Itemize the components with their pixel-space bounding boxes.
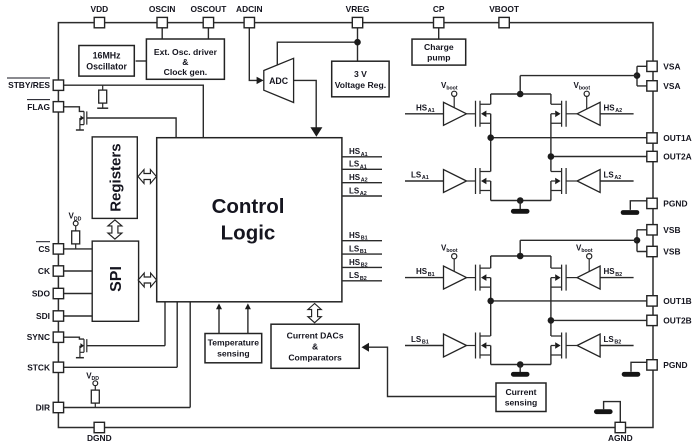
arrowhead into DACs xyxy=(362,343,370,352)
wire CS to SPI xyxy=(64,248,92,250)
wire OUT1A rail xyxy=(491,137,647,139)
pin DIR (left) xyxy=(36,402,64,412)
pin VDD (top) xyxy=(91,4,109,28)
wire STCK to Control Logic xyxy=(64,302,178,368)
svg-text:OSCOUT: OSCOUT xyxy=(190,4,227,14)
wire temp sensing to control (2) xyxy=(247,308,249,334)
ground PGND B xyxy=(622,372,641,377)
pin VSB (right) xyxy=(647,225,681,235)
block SPI xyxy=(92,241,138,321)
node OUT2A xyxy=(548,153,555,160)
node bridge B top xyxy=(517,253,524,260)
svg-text:OUT2B: OUT2B xyxy=(663,315,691,325)
svg-text:3 V: 3 V xyxy=(354,69,367,79)
resistor CS pull-up xyxy=(72,226,80,249)
svg-text:Current: Current xyxy=(505,387,536,397)
wire SDI to SPI xyxy=(64,315,92,317)
svg-text:SYNC: SYNC xyxy=(27,332,50,342)
svg-text:AGND: AGND xyxy=(608,433,633,443)
wire HS B2 input xyxy=(600,277,634,279)
arrowhead temp (1) xyxy=(216,303,222,309)
svg-text:OUT2A: OUT2A xyxy=(663,152,691,162)
wire ADC top to VREG node xyxy=(277,42,357,65)
wire Q1 gate to Control Logic xyxy=(87,118,176,138)
svg-text:PGND: PGND xyxy=(663,198,687,208)
svg-text:&: & xyxy=(182,57,188,67)
wire signal LS B2 xyxy=(342,280,382,282)
driver buffer LS B1 xyxy=(444,334,476,357)
svg-text:Comparators: Comparators xyxy=(288,352,342,362)
wire AGND ground link xyxy=(604,402,621,423)
bus arrow SPI-Control xyxy=(138,273,156,287)
pin SYNC (left) xyxy=(27,332,64,342)
svg-text:16MHz: 16MHz xyxy=(93,50,121,60)
block Control Logic xyxy=(157,138,342,302)
transistor M6 LS B1 xyxy=(476,333,491,359)
pin SDO (left) xyxy=(32,288,64,298)
wire bridge A right bus xyxy=(550,94,552,201)
wire SYNC to Q2 xyxy=(64,337,84,339)
ground PGND A xyxy=(621,210,640,215)
svg-text:STBY/RES: STBY/RES xyxy=(8,80,50,90)
node VREG junction xyxy=(354,39,361,46)
svg-text:VDD: VDD xyxy=(91,4,109,14)
driver buffer HS B2 xyxy=(566,266,600,289)
svg-text:SDO: SDO xyxy=(32,289,51,299)
wire Q2 gate to Control Logic xyxy=(87,302,165,346)
ground bridge A xyxy=(511,209,530,214)
wire signal HS A2 xyxy=(342,182,382,184)
pin VBOOT (top) xyxy=(489,4,520,28)
transistor M5 HS B1 xyxy=(476,265,491,291)
transistor Q1 FLAG open-drain xyxy=(76,111,87,130)
ADC input arrowhead xyxy=(257,77,264,84)
pin OUT1B (right) xyxy=(647,296,692,306)
svg-text:CK: CK xyxy=(38,266,50,276)
Vboot B2 supply terminal xyxy=(576,243,593,271)
resistor STBY pull-down xyxy=(99,85,107,108)
wire HS A2 input xyxy=(600,113,634,115)
wire HS A1 input xyxy=(405,113,444,115)
block 3V voltage regulator xyxy=(332,61,389,97)
svg-text:FLAG: FLAG xyxy=(27,102,50,112)
svg-text:OUT1A: OUT1A xyxy=(663,133,691,143)
block charge pump xyxy=(412,39,466,65)
pin PGND (right) xyxy=(647,360,688,370)
Vboot A1 supply terminal xyxy=(441,81,458,108)
svg-text:VSB: VSB xyxy=(663,247,680,257)
wire LS B2 input xyxy=(600,345,634,347)
wire temp sensing to control (1) xyxy=(218,308,220,334)
pin STCK (left) xyxy=(27,362,63,372)
wire OUT2B rail xyxy=(551,319,647,321)
node bridge A top xyxy=(517,91,524,98)
svg-text:VSB: VSB xyxy=(663,225,680,235)
driver buffer HS A2 xyxy=(566,102,600,125)
svg-text:SPI: SPI xyxy=(108,266,125,292)
block 16MHz oscillator xyxy=(79,46,134,77)
pin CK (left) xyxy=(38,266,64,276)
wire signal HS B1 xyxy=(342,240,382,242)
wire HS B1 input xyxy=(405,277,444,279)
ground bridge B xyxy=(511,372,530,377)
wire OUT2A rail xyxy=(551,156,647,158)
wire bridge B left bus xyxy=(490,256,492,365)
svg-text:DGND: DGND xyxy=(87,433,112,443)
node OUT1B xyxy=(487,298,494,305)
svg-text:Ext. Osc. driver: Ext. Osc. driver xyxy=(154,47,218,57)
node bridge A bottom xyxy=(517,197,524,204)
block ext osc driver / clock gen xyxy=(146,39,224,79)
pin VSB (right) xyxy=(647,246,681,256)
svg-text:Oscillator: Oscillator xyxy=(86,62,127,72)
pin ADCIN (top) xyxy=(236,4,263,28)
svg-text:Control: Control xyxy=(212,195,285,218)
svg-text:OSCIN: OSCIN xyxy=(149,4,176,14)
pin CS (left) xyxy=(36,242,64,254)
svg-text:VBOOT: VBOOT xyxy=(489,4,520,14)
svg-text:&: & xyxy=(312,341,318,351)
pin SDI (left) xyxy=(36,311,64,321)
wire VSA to bridge A rail xyxy=(520,76,637,94)
svg-text:Voltage Reg.: Voltage Reg. xyxy=(335,80,386,90)
wire signal HS B2 xyxy=(342,266,382,268)
wire PGND B ground link xyxy=(631,362,647,371)
svg-text:ADC: ADC xyxy=(269,76,289,86)
transistor M1 HS A1 xyxy=(476,101,491,127)
wire bridge B ground stub xyxy=(519,365,521,373)
wire VSA stubs xyxy=(637,66,647,86)
transistor M7 HS B2 xyxy=(551,265,566,291)
wire ADC output to Control Logic xyxy=(294,80,317,128)
wire bridge B right bus xyxy=(550,256,552,365)
pin OSCIN (top) xyxy=(149,4,176,28)
bus arrow Registers-Control xyxy=(138,170,156,184)
block current sensing xyxy=(496,383,546,412)
wire 16MHz osc to clock gen xyxy=(136,60,147,62)
arrowhead temp (2) xyxy=(245,303,251,309)
wire bridge A left bus xyxy=(490,94,492,201)
wire OUT1B rail xyxy=(491,300,647,302)
Vboot B1 supply terminal xyxy=(441,243,458,271)
IC outline xyxy=(58,23,653,428)
wire signal LS A2 xyxy=(342,195,382,197)
svg-text:SDI: SDI xyxy=(36,311,50,321)
driver buffer LS A1 xyxy=(444,170,476,193)
node OUT1A xyxy=(487,134,494,141)
wire CP stub xyxy=(438,28,440,39)
pin OUT1A (right) xyxy=(647,133,692,143)
svg-text:VSA: VSA xyxy=(663,61,680,71)
svg-text:CP: CP xyxy=(433,4,445,14)
VDD pull-up terminal for DIR xyxy=(86,371,99,385)
block current DACs and comparators xyxy=(271,324,359,368)
pin OUT2B (right) xyxy=(647,315,692,325)
transistor M2 LS A1 xyxy=(476,168,491,194)
resistor DIR pull-up xyxy=(91,386,99,408)
pin DGND (bottom) xyxy=(87,422,112,443)
driver buffer LS B2 xyxy=(566,334,600,357)
driver buffer LS A2 xyxy=(566,170,600,193)
svg-text:pump: pump xyxy=(427,53,450,63)
ADC output arrowhead xyxy=(310,127,322,137)
ground AGND xyxy=(594,409,613,414)
svg-text:ADCIN: ADCIN xyxy=(236,4,263,14)
wire bridge B top rail xyxy=(491,255,551,257)
transistor M3 HS A2 xyxy=(551,101,566,127)
wire VREG stub xyxy=(357,28,359,61)
VDD pull-up terminal for CS xyxy=(69,212,82,226)
wire DIR to Control Logic xyxy=(64,302,191,408)
pin VREG (top) xyxy=(346,4,370,28)
svg-text:sensing: sensing xyxy=(217,349,249,359)
node bridge B bottom xyxy=(517,361,524,368)
wire PGND A ground link xyxy=(630,201,647,210)
svg-text:Current DACs: Current DACs xyxy=(287,330,344,340)
pin VSA (right) xyxy=(647,81,681,91)
pin AGND (bottom) xyxy=(608,422,633,443)
wire CK to SPI xyxy=(64,270,92,272)
svg-text:OUT1B: OUT1B xyxy=(663,296,691,306)
wire STBY/RES to Control Logic xyxy=(64,85,204,138)
bus arrow Registers-SPI xyxy=(108,220,122,239)
wire bridge B bottom rail xyxy=(491,364,551,366)
svg-text:PGND: PGND xyxy=(663,360,687,370)
pin PGND (right) xyxy=(647,198,688,208)
svg-text:Charge: Charge xyxy=(424,42,454,52)
wire ADCIN to ADC xyxy=(249,28,257,81)
svg-text:VSA: VSA xyxy=(663,81,680,91)
Vboot A2 supply terminal xyxy=(574,81,591,109)
wire OSCOUT stub xyxy=(207,28,209,40)
wire LS B1 input xyxy=(405,345,444,347)
block temperature sensing xyxy=(205,334,262,363)
transistor M4 LS A2 xyxy=(551,168,566,194)
transistor M8 LS B2 xyxy=(551,333,566,359)
wire LS A2 input xyxy=(600,180,634,182)
wire current sensing to DACs xyxy=(368,347,497,396)
wire bridge A top rail xyxy=(491,93,551,95)
transistor Q2 SYNC open-drain xyxy=(76,339,87,358)
ground tick STBY resistor xyxy=(97,107,108,109)
node VSA junction xyxy=(634,72,641,79)
wire VSB stubs xyxy=(637,230,647,252)
svg-text:Logic: Logic xyxy=(221,222,276,245)
svg-text:sensing: sensing xyxy=(505,398,537,408)
driver buffer HS A1 xyxy=(444,102,476,125)
svg-text:CS: CS xyxy=(38,244,50,254)
pin CP (top) xyxy=(433,4,445,28)
wire VSB to bridge B rail xyxy=(520,240,637,256)
wire FLAG to Q1 drain xyxy=(64,107,84,112)
wire signal LS A1 xyxy=(342,168,382,170)
svg-text:Temperature: Temperature xyxy=(208,338,260,348)
wire OSCIN stub xyxy=(161,28,163,40)
pin OSCOUT (top) xyxy=(190,4,227,28)
block Registers xyxy=(92,137,137,219)
wire LS A1 input xyxy=(405,180,444,182)
node OUT2B xyxy=(548,317,555,324)
pin VSA (right) xyxy=(647,61,681,71)
wire SDO to SPI xyxy=(64,293,92,295)
wire bridge A ground stub xyxy=(519,201,521,210)
pin FLAG (left) xyxy=(27,100,64,112)
driver buffer HS B1 xyxy=(444,266,476,289)
wire signal LS B1 xyxy=(342,253,382,255)
pin STBY/RES (left) xyxy=(7,78,64,90)
svg-text:DIR: DIR xyxy=(36,403,50,413)
node VSB junction xyxy=(634,237,641,244)
pin OUT2A (right) xyxy=(647,151,692,161)
wire bridge A bottom rail xyxy=(491,200,551,202)
op-amp U1 ADC xyxy=(264,58,294,102)
svg-text:STCK: STCK xyxy=(27,362,50,372)
svg-text:Registers: Registers xyxy=(108,143,125,211)
bus arrow Control-DACs xyxy=(308,304,321,323)
wire signal HS A1 xyxy=(342,156,382,158)
svg-text:Clock gen.: Clock gen. xyxy=(164,67,207,77)
svg-text:VREG: VREG xyxy=(346,4,370,14)
